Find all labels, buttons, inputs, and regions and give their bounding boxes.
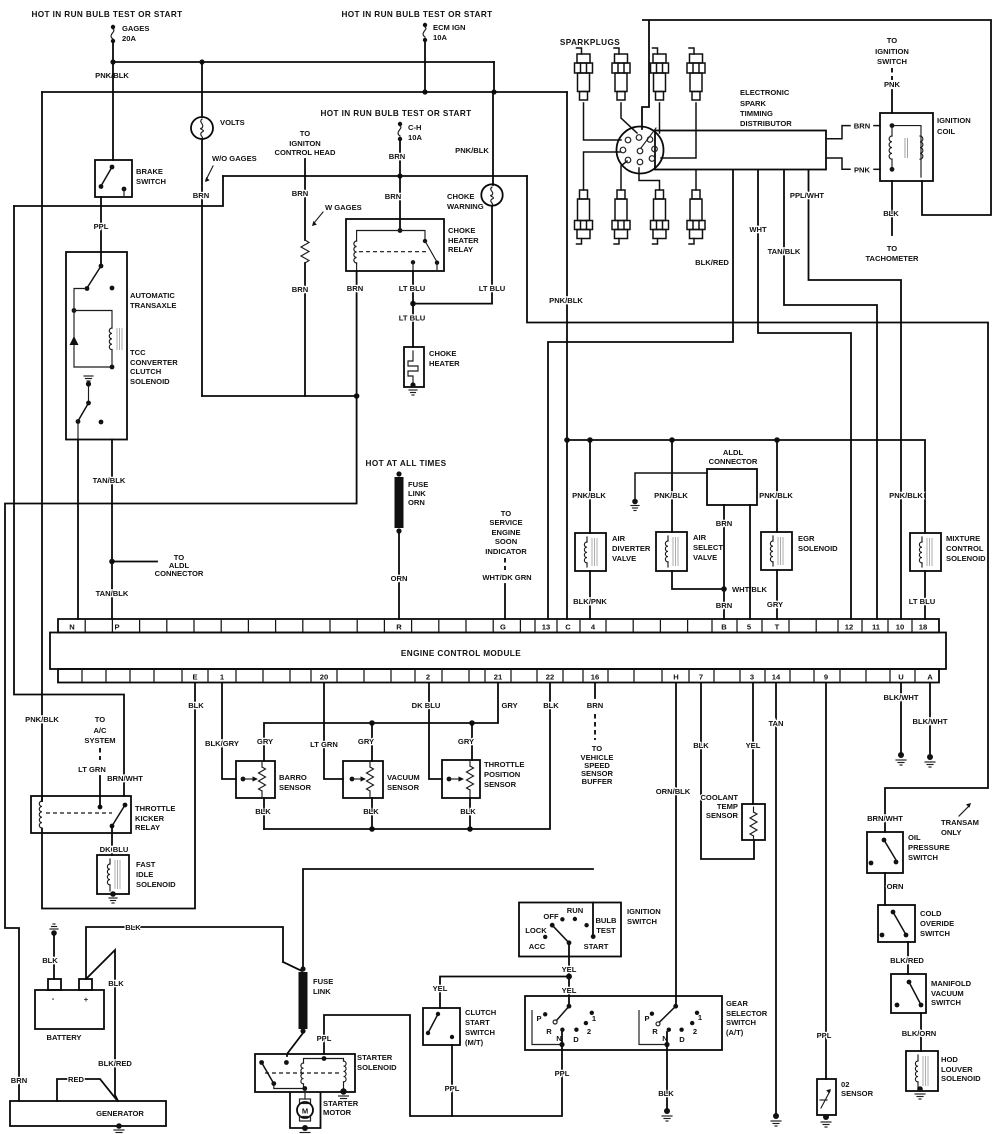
wire ignition switch YEL down: [568, 945, 570, 1006]
svg-text:MIXTURE: MIXTURE: [946, 534, 980, 543]
svg-text:WHT: WHT: [749, 225, 767, 234]
svg-text:VACUUM: VACUUM: [387, 773, 420, 782]
svg-text:POSITION: POSITION: [484, 770, 520, 779]
ground gear selector: [662, 1116, 672, 1121]
svg-text:PNK: PNK: [854, 165, 871, 174]
svg-text:RELAY: RELAY: [135, 823, 160, 832]
svg-text:GRY: GRY: [767, 600, 783, 609]
wire ECM 16 BRN to vehicle speed buffer: [594, 683, 596, 698]
svg-text:U: U: [898, 673, 904, 682]
svg-text:TO: TO: [95, 715, 106, 724]
wire ECM H ORN/BLK to gear selector: [675, 683, 677, 1006]
wire PNK dashed from ignition switch: [891, 68, 893, 80]
sparkplug bottom 3: [651, 190, 669, 244]
solenoid FAST IDLE SOLENOID: [97, 855, 176, 897]
svg-text:SOLENOID: SOLENOID: [946, 554, 986, 563]
svg-text:FUSE: FUSE: [408, 480, 428, 489]
wire distributor TAN/BLK: [784, 170, 877, 619]
svg-text:VACUUM: VACUUM: [931, 989, 964, 998]
wire distributor WHT: [758, 170, 851, 619]
svg-text:BRN: BRN: [11, 1076, 27, 1085]
svg-text:P: P: [536, 1014, 541, 1023]
generator: [10, 1101, 166, 1129]
svg-text:PNK/BLK: PNK/BLK: [549, 296, 583, 305]
svg-text:ALDL: ALDL: [723, 448, 744, 457]
gear group 1: [532, 1010, 560, 1045]
svg-text:GEAR: GEAR: [726, 999, 748, 1008]
svg-text:CONTROL HEAD: CONTROL HEAD: [274, 148, 336, 157]
switch OIL PRESSURE SWITCH: [867, 832, 950, 873]
svg-text:ECM IGN: ECM IGN: [433, 23, 466, 32]
wire battery positive BLK / BLK/RED to generator: [86, 950, 118, 1101]
wire sensor ground bus to ECM 22 BLK: [264, 683, 550, 829]
heater CHOKE HEATER: [404, 347, 460, 388]
gauge lamp VOLTS: [191, 62, 245, 141]
sparkplug top 1: [575, 48, 593, 100]
wire relay coil BRN down and across: [356, 271, 358, 396]
svg-text:SOLENOID: SOLENOID: [130, 377, 170, 386]
switch MANIFOLD VACUUM SWITCH: [891, 974, 972, 1013]
relay THROTTLE KICKER RELAY: [31, 796, 176, 833]
svg-text:R: R: [652, 1027, 658, 1036]
wire volts lamp down (W/O GAGES BRN): [201, 139, 203, 396]
wire clutch switch PPL drop: [451, 1045, 453, 1116]
svg-text:H: H: [673, 673, 678, 682]
svg-text:HOT IN RUN BULB TEST OR START: HOT IN RUN BULB TEST OR START: [320, 109, 471, 118]
svg-text:BLK/RED: BLK/RED: [890, 956, 924, 965]
svg-text:PPL/WHT: PPL/WHT: [790, 191, 825, 200]
wire EGR to terminal T GRY: [776, 570, 778, 619]
wire PPL net solenoid to gear selector N: [324, 1015, 562, 1116]
svg-text:BRN: BRN: [292, 189, 308, 198]
svg-text:BLK: BLK: [255, 807, 271, 816]
svg-text:LT BLU: LT BLU: [399, 284, 426, 293]
svg-text:SENSOR: SENSOR: [841, 1089, 874, 1098]
switch COLD OVERIDE SWITCH: [878, 905, 954, 942]
lamp CHOKE WARNING: [447, 184, 503, 211]
wire BRN long run to generator: [5, 396, 357, 1101]
svg-text:COLD: COLD: [920, 909, 942, 918]
svg-text:GRY: GRY: [458, 737, 474, 746]
svg-text:BLK: BLK: [658, 1089, 674, 1098]
svg-text:PNK/BLK: PNK/BLK: [455, 146, 489, 155]
svg-text:HOT AT ALL TIMES: HOT AT ALL TIMES: [366, 459, 447, 468]
svg-text:7: 7: [699, 673, 703, 682]
ground hod louver: [915, 1094, 925, 1099]
fuse ECM IGN 10A: [423, 23, 466, 42]
wire distributor BLK/RED: [548, 170, 733, 619]
svg-text:CLUTCH: CLUTCH: [465, 1008, 496, 1017]
wire transaxle N TAN/BLK: [77, 440, 79, 620]
big feed box outline: [642, 20, 991, 215]
fuse link ORN: [395, 471, 429, 533]
wire fuse ECM IGN down: [424, 42, 426, 92]
svg-text:THROTTLE: THROTTLE: [135, 804, 176, 813]
node LT BLU junction: [410, 301, 416, 307]
svg-text:SWITCH: SWITCH: [627, 917, 657, 926]
node gages bus junction: [110, 59, 115, 64]
svg-text:BULB: BULB: [595, 916, 617, 925]
svg-text:BLK/WHT: BLK/WHT: [912, 717, 947, 726]
motor STARTER MOTOR: [290, 1089, 359, 1132]
svg-text:BLK/WHT: BLK/WHT: [883, 693, 918, 702]
svg-text:PNK/BLK: PNK/BLK: [889, 491, 923, 500]
wire plug b3 to cap: [639, 168, 660, 190]
svg-text:M: M: [302, 1107, 308, 1116]
wire bulb test bus to fuse link: [303, 869, 593, 967]
svg-text:IGNITION: IGNITION: [875, 47, 909, 56]
svg-text:VALVE: VALVE: [612, 554, 636, 563]
svg-text:SPARKPLUGS: SPARKPLUGS: [560, 38, 620, 47]
svg-text:18: 18: [919, 623, 927, 632]
svg-text:MOTOR: MOTOR: [323, 1108, 352, 1117]
svg-text:ACC: ACC: [529, 942, 546, 951]
svg-text:BLK: BLK: [188, 701, 204, 710]
wire plug t2 to cap: [621, 103, 637, 133]
svg-text:TAN/BLK: TAN/BLK: [93, 476, 126, 485]
svg-text:SELECTOR: SELECTOR: [726, 1009, 768, 1018]
svg-text:LT BLU: LT BLU: [479, 284, 506, 293]
wire plug t4 to cap: [661, 103, 696, 158]
wire coil BLK to tachometer: [891, 181, 893, 235]
node YEL junction: [566, 974, 572, 980]
svg-text:A: A: [927, 673, 933, 682]
wire air select feed: [671, 440, 673, 532]
svg-text:ELECTRONIC: ELECTRONIC: [740, 88, 790, 97]
svg-text:OVERIDE: OVERIDE: [920, 919, 954, 928]
svg-text:COIL: COIL: [937, 127, 956, 136]
svg-text:BRAKE: BRAKE: [136, 167, 163, 176]
wire PNK/BLK x567 to terminal C: [566, 92, 568, 619]
svg-text:ORN: ORN: [391, 574, 408, 583]
svg-text:PNK: PNK: [884, 80, 901, 89]
resistor W GAGES: [301, 240, 309, 263]
svg-text:OFF: OFF: [543, 912, 559, 921]
svg-text:N: N: [69, 623, 74, 632]
svg-text:CONTROL: CONTROL: [946, 544, 984, 553]
svg-text:C-H: C-H: [408, 123, 422, 132]
solenoid STARTER SOLENOID: [255, 1054, 355, 1095]
svg-text:HEATER: HEATER: [448, 236, 479, 245]
wire vacuum BLK down: [371, 798, 373, 829]
wire PNK/BLK to brake switch: [112, 62, 114, 160]
svg-text:BRN: BRN: [292, 285, 308, 294]
svg-text:BRN/WHT: BRN/WHT: [107, 774, 143, 783]
svg-text:YEL: YEL: [562, 965, 577, 974]
wire distributor PPL/WHT: [809, 170, 902, 619]
svg-text:16: 16: [591, 673, 599, 682]
wire PNK/BLK x42 long run: [41, 92, 43, 801]
svg-text:10A: 10A: [433, 33, 447, 42]
connector bracket PNK to coil: [826, 158, 894, 174]
connector bracket BRN to coil: [826, 122, 894, 139]
wire relay to fast idle DK BLU: [111, 826, 113, 855]
svg-text:(A/T): (A/T): [726, 1028, 744, 1037]
svg-text:LINK: LINK: [408, 489, 426, 498]
wire barro BLK down: [263, 798, 265, 829]
ECM top terminal strip: [58, 619, 939, 633]
svg-text:YEL: YEL: [433, 984, 448, 993]
svg-text:SOLENOID: SOLENOID: [136, 880, 176, 889]
wire ALDL BRN to terminal B: [723, 505, 725, 619]
svg-text:SWITCH: SWITCH: [136, 177, 166, 186]
svg-text:BRN/WHT: BRN/WHT: [867, 814, 903, 823]
svg-text:BLK/ORN: BLK/ORN: [902, 1029, 937, 1038]
svg-text:EGR: EGR: [798, 534, 815, 543]
svg-text:VOLTS: VOLTS: [220, 118, 245, 127]
ground starter solenoid: [339, 1096, 349, 1101]
svg-text:SWITCH: SWITCH: [726, 1018, 756, 1027]
wire relay output LT BLU: [412, 271, 414, 304]
svg-text:FUSE: FUSE: [313, 977, 333, 986]
svg-text:SOLENOID: SOLENOID: [357, 1063, 397, 1072]
svg-text:AIR: AIR: [612, 534, 626, 543]
svg-text:CHOKE: CHOKE: [448, 226, 475, 235]
switch CLUTCH START SWITCH (M/T): [423, 1008, 496, 1047]
wire throttle GRY: [471, 723, 473, 760]
connector ALDL box: [707, 469, 757, 505]
solenoid MIXTURE CONTROL SOLENOID: [910, 533, 986, 571]
svg-text:PRESSURE: PRESSURE: [908, 843, 950, 852]
svg-text:BRN: BRN: [389, 152, 405, 161]
svg-text:SYSTEM: SYSTEM: [84, 736, 115, 745]
svg-text:IDLE: IDLE: [136, 870, 153, 879]
wire vacuum GRY: [371, 723, 373, 761]
relay CHOKE HEATER RELAY: [346, 176, 479, 271]
svg-text:10A: 10A: [408, 133, 422, 142]
ground starter motor: [300, 1133, 310, 1134]
wire air select to B joint WHT/BLK: [672, 571, 724, 589]
svg-text:+: +: [84, 995, 89, 1004]
svg-text:PNK/BLK: PNK/BLK: [572, 491, 606, 500]
svg-text:WHT/DK GRN: WHT/DK GRN: [482, 573, 531, 582]
svg-text:TO: TO: [501, 509, 512, 518]
svg-text:BRN: BRN: [587, 701, 603, 710]
wire bus y176: [223, 175, 527, 177]
svg-text:LINK: LINK: [313, 987, 331, 996]
svg-text:TAN/BLK: TAN/BLK: [96, 589, 129, 598]
svg-text:TAN/BLK: TAN/BLK: [768, 247, 801, 256]
svg-text:SWITCH: SWITCH: [465, 1028, 495, 1037]
wire y62 drop to y92: [493, 62, 495, 92]
wire cold override to manifold BLK/RED: [907, 942, 909, 974]
wire ECM 1 BLK/GRY to barro: [222, 683, 236, 779]
wire volts branch joins: [202, 395, 357, 397]
wire EGR feed: [776, 440, 778, 532]
sensor THROTTLE POSITION SENSOR: [442, 760, 525, 798]
svg-text:W/O GAGES: W/O GAGES: [212, 154, 257, 163]
sensor VACUUM SENSOR: [343, 761, 420, 798]
svg-text:HOD: HOD: [941, 1055, 958, 1064]
svg-text:CHOKE: CHOKE: [447, 192, 474, 201]
svg-text:LT GRN: LT GRN: [310, 740, 338, 749]
battery: [35, 979, 104, 1042]
svg-text:DK BLU: DK BLU: [412, 701, 441, 710]
svg-text:OIL: OIL: [908, 833, 921, 842]
svg-text:14: 14: [772, 673, 781, 682]
svg-text:START: START: [584, 942, 609, 951]
wire bus y62: [113, 61, 494, 63]
wire plug t3 to cap: [659, 103, 661, 133]
ground fast idle: [109, 898, 117, 903]
svg-text:GAGES: GAGES: [122, 24, 149, 33]
wire choke warning LT BLU down: [491, 206, 493, 304]
wire plug b1 to cap: [584, 152, 621, 190]
svg-text:YEL: YEL: [746, 741, 761, 750]
svg-text:RELAY: RELAY: [448, 245, 473, 254]
svg-text:CLUTCH: CLUTCH: [130, 367, 161, 376]
fuse link (starter): [299, 966, 334, 1033]
svg-text:CHOKE: CHOKE: [429, 349, 456, 358]
svg-text:10: 10: [896, 623, 904, 632]
wire fuse link to terminal R: [398, 533, 400, 619]
wire gear selector N2 BLK to ground: [666, 1050, 668, 1108]
svg-text:BRN: BRN: [193, 191, 209, 200]
wire bus y92: [42, 91, 567, 93]
svg-text:BLK/RED: BLK/RED: [98, 1059, 132, 1068]
sparkplug bottom 4: [687, 190, 705, 244]
wire ECM 7 BLK to coolant sensor: [701, 683, 754, 859]
svg-text:VALVE: VALVE: [693, 553, 717, 562]
node y92 x494 junction: [491, 89, 496, 94]
svg-text:BLK: BLK: [543, 701, 559, 710]
svg-text:KICKER: KICKER: [135, 814, 165, 823]
svg-text:YEL: YEL: [562, 986, 577, 995]
svg-text:P: P: [644, 1014, 649, 1023]
wire fuse link diagonal to starter solenoid: [287, 1033, 303, 1056]
svg-text:SENSOR: SENSOR: [484, 780, 517, 789]
svg-text:SWITCH: SWITCH: [877, 57, 907, 66]
svg-text:WARNING: WARNING: [447, 202, 484, 211]
wire battery BLK bus to fuse link: [86, 927, 283, 979]
svg-text:T: T: [775, 623, 780, 632]
svg-text:SWITCH: SWITCH: [908, 853, 938, 862]
wire y176 step down to y206: [14, 176, 223, 206]
wire C-H fuse to y176 bus, BRN: [399, 141, 401, 176]
svg-text:2: 2: [426, 673, 430, 682]
svg-text:20A: 20A: [122, 34, 136, 43]
svg-text:PNK/BLK: PNK/BLK: [654, 491, 688, 500]
svg-text:AIR: AIR: [693, 533, 707, 542]
solenoid AIR SELECT VALVE: [656, 532, 723, 571]
svg-text:ONLY: ONLY: [941, 828, 961, 837]
svg-text:BLK: BLK: [460, 807, 476, 816]
wire YEL branch to clutch switch: [440, 977, 569, 1009]
node WHT/BLK joint: [721, 586, 727, 592]
svg-text:N: N: [556, 1034, 561, 1043]
wire ECM 21 GRY bus: [264, 683, 498, 761]
gear group 2: [639, 1010, 667, 1045]
svg-text:BRN: BRN: [385, 192, 401, 201]
ground o2 sensor: [821, 1122, 831, 1127]
svg-text:BLK/GRY: BLK/GRY: [205, 739, 239, 748]
node aldl branch on P wire: [109, 559, 115, 565]
svg-text:TO: TO: [300, 129, 311, 138]
wire plug t1 to cap: [584, 103, 622, 140]
svg-text:BLK: BLK: [693, 741, 709, 750]
svg-text:TO: TO: [887, 244, 898, 253]
wire throttle BLK down: [469, 798, 471, 829]
svg-text:LT BLU: LT BLU: [909, 597, 936, 606]
svg-text:22: 22: [546, 673, 554, 682]
ground battery negative: [50, 924, 58, 929]
svg-text:LT GRN: LT GRN: [78, 765, 106, 774]
svg-text:SENSOR: SENSOR: [279, 783, 312, 792]
svg-text:BLK: BLK: [125, 923, 141, 932]
svg-text:BRN: BRN: [347, 284, 363, 293]
svg-text:TAN: TAN: [768, 719, 783, 728]
svg-text:ENGINE: ENGINE: [491, 528, 520, 537]
wire ECM 14 TAN to ground: [775, 683, 777, 1113]
sparkplug top 2: [612, 48, 630, 100]
ECM bottom terminal strip: [58, 669, 939, 683]
sparkplug bottom 1: [575, 190, 593, 244]
svg-text:STARTER: STARTER: [357, 1053, 393, 1062]
svg-text:12: 12: [845, 623, 853, 632]
ignition coil U: [880, 113, 971, 181]
solenoid AIR DIVERTER VALVE: [575, 533, 651, 571]
svg-text:C: C: [565, 623, 571, 632]
svg-text:IGNITION: IGNITION: [937, 116, 971, 125]
svg-text:2: 2: [693, 1027, 697, 1036]
wire to aldl connector branch: [112, 561, 157, 563]
svg-text:RED: RED: [68, 1075, 85, 1084]
svg-text:BLK: BLK: [883, 209, 899, 218]
box AUTOMATIC TRANSAXLE / TCC solenoid: [66, 252, 178, 440]
svg-text:DK BLU: DK BLU: [100, 845, 129, 854]
svg-text:A/C: A/C: [93, 726, 107, 735]
svg-text:BLK: BLK: [108, 979, 124, 988]
svg-text:BLK: BLK: [42, 956, 58, 965]
svg-text:DISTRIBUTOR: DISTRIBUTOR: [740, 119, 792, 128]
svg-text:SOON: SOON: [495, 537, 517, 546]
svg-text:MANIFOLD: MANIFOLD: [931, 979, 972, 988]
svg-text:13: 13: [542, 623, 550, 632]
ground choke heater: [409, 390, 417, 395]
svg-text:PPL: PPL: [817, 1031, 832, 1040]
fuse GAGES 20A: [111, 24, 150, 43]
svg-text:SWITCH: SWITCH: [931, 998, 961, 1007]
svg-text:THROTTLE: THROTTLE: [484, 760, 525, 769]
svg-text:ORN: ORN: [887, 882, 904, 891]
svg-text:SENSOR: SENSOR: [387, 783, 420, 792]
distributor housing rect: [655, 131, 826, 170]
wire ignition control head BRN w/ resistor W GAGES: [304, 159, 306, 240]
wire x42 lower to ECM E BLK: [42, 683, 195, 909]
svg-text:ORN/BLK: ORN/BLK: [656, 787, 691, 796]
svg-text:CONNECTOR: CONNECTOR: [709, 457, 758, 466]
svg-text:LOCK: LOCK: [525, 926, 547, 935]
wire ECM 9 PPL to o2 sensor: [825, 683, 827, 1079]
wire fuse GAGES to bus: [112, 43, 114, 62]
svg-text:D: D: [679, 1035, 685, 1044]
sparkplug top 4: [687, 48, 705, 100]
svg-text:TEST: TEST: [596, 926, 616, 935]
wire ALDL to terminal 5: [749, 505, 751, 619]
svg-text:BLK/PNK: BLK/PNK: [573, 597, 607, 606]
ground U: [896, 760, 906, 765]
wire long bus y323 to oil pressure chain: [527, 176, 988, 832]
svg-text:B: B: [721, 623, 727, 632]
svg-text:PPL: PPL: [94, 222, 109, 231]
svg-text:TACHOMETER: TACHOMETER: [865, 254, 919, 263]
svg-text:TIMMING: TIMMING: [740, 109, 773, 118]
svg-text:GENERATOR: GENERATOR: [96, 1109, 144, 1118]
node choke relay feed: [397, 173, 402, 178]
svg-text:BRN: BRN: [716, 601, 732, 610]
svg-text:P: P: [114, 623, 119, 632]
svg-text:2: 2: [587, 1027, 591, 1036]
